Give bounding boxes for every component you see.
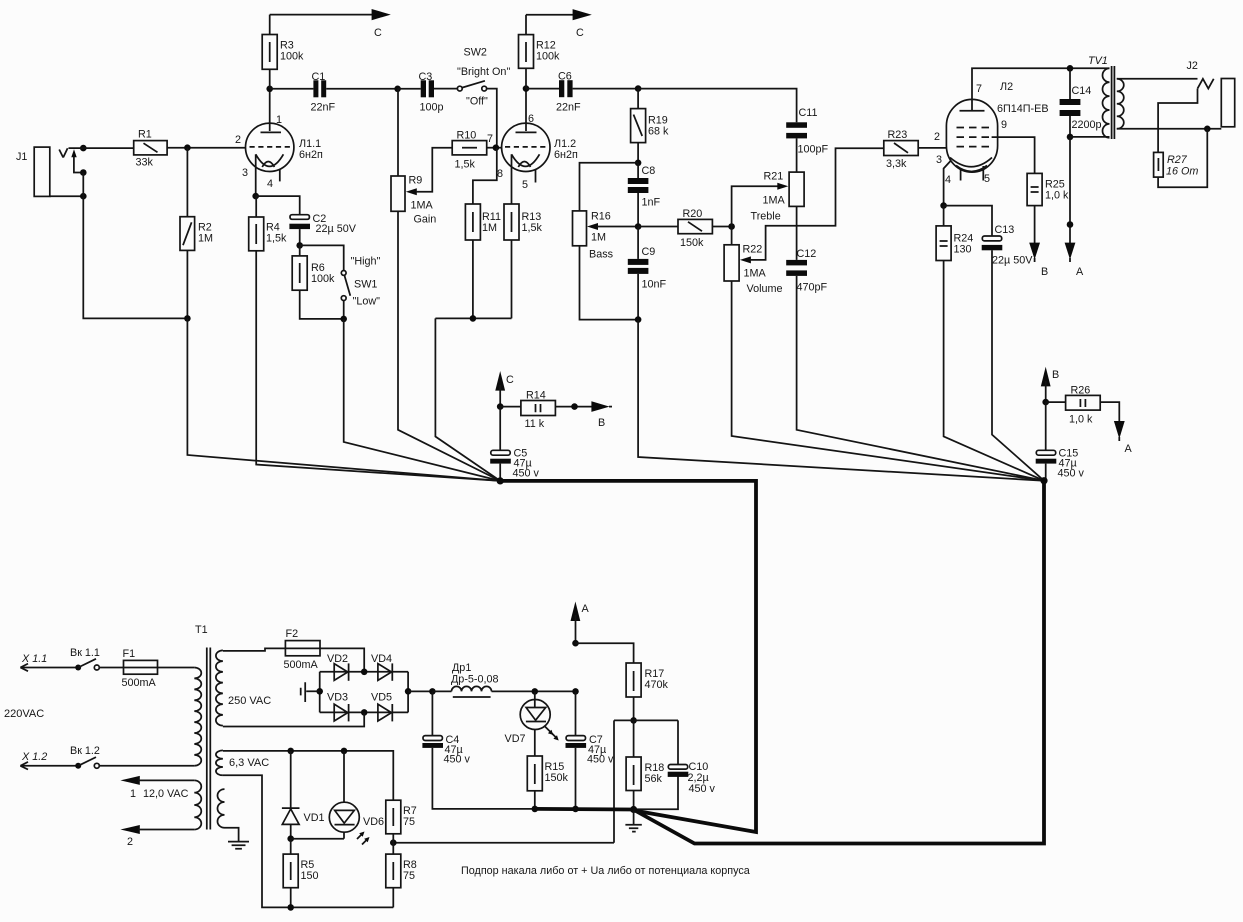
- svg-text:R1: R1: [138, 129, 152, 141]
- wire C14 node down to A: [1069, 137, 1071, 244]
- svg-text:450 v: 450 v: [513, 468, 540, 480]
- svg-text:C6: C6: [558, 71, 572, 83]
- svg-text:F1: F1: [123, 648, 136, 660]
- supply arrow B (down): [1029, 243, 1040, 260]
- wire 6.3VAC return: [223, 775, 393, 907]
- svg-text:R10: R10: [457, 130, 477, 142]
- supply arrow B (right): [591, 401, 609, 412]
- node R2 bottom: [184, 315, 191, 322]
- svg-text:220VAC: 220VAC: [4, 708, 44, 720]
- terminal arrow 1 (12V): [120, 776, 139, 785]
- capacitor C4: [422, 691, 534, 809]
- ground symbol T1: [228, 842, 249, 849]
- svg-text:Вк 1.1: Вк 1.1: [70, 647, 100, 659]
- node grid1: [184, 144, 191, 151]
- wire cathode1 down: [255, 154, 257, 196]
- svg-text:Др1: Др1: [452, 662, 471, 674]
- svg-text:6П14П-ЕВ: 6П14П-ЕВ: [997, 103, 1049, 115]
- thick ground bus right: [635, 481, 1044, 844]
- node ground right: [1040, 477, 1047, 484]
- svg-text:A: A: [582, 603, 590, 615]
- svg-text:8: 8: [497, 168, 503, 180]
- svg-text:100p: 100p: [420, 102, 444, 114]
- svg-text:B: B: [598, 417, 605, 429]
- thick bus PSU: [535, 807, 634, 811]
- wire shield to ground: [225, 828, 239, 842]
- capacitor C12: [786, 248, 827, 294]
- svg-text:1,0 k: 1,0 k: [1045, 190, 1069, 202]
- resistor R27: [1154, 152, 1199, 177]
- svg-text:56k: 56k: [645, 773, 663, 785]
- svg-text:1: 1: [130, 788, 136, 800]
- wire node to R21 wiper: [732, 186, 781, 226]
- wire A rail to R17: [576, 643, 634, 663]
- resistor R23: [884, 129, 918, 170]
- resistor R5: [283, 839, 318, 888]
- wire R4 bottom diag to ground: [256, 251, 500, 481]
- input jack J1: [16, 147, 50, 196]
- svg-text:C11: C11: [799, 107, 818, 119]
- capacitor C14: [1060, 68, 1102, 137]
- wire R8 bottom: [392, 888, 394, 908]
- supply arrow C (left): [372, 9, 391, 20]
- svg-text:Л2: Л2: [1000, 81, 1013, 93]
- node R14 out: [571, 403, 578, 410]
- pin 4 stub: [279, 169, 281, 181]
- wire J1 sleeve to node: [50, 195, 84, 197]
- capacitor C3: [398, 71, 458, 114]
- pin 5 stub: [535, 169, 537, 182]
- wire J2 tip to R27: [1158, 89, 1197, 153]
- svg-text:3: 3: [936, 154, 942, 166]
- svg-text:150k: 150k: [680, 237, 704, 249]
- svg-text:1: 1: [276, 114, 282, 126]
- screen grid wire to R25: [992, 137, 1035, 173]
- svg-text:C14: C14: [1072, 85, 1092, 97]
- svg-text:470pF: 470pF: [797, 282, 828, 294]
- switch Вк 1.2: [70, 745, 194, 769]
- wire R25 to B arrow: [1034, 206, 1036, 244]
- node J1 mid: [80, 169, 87, 176]
- J1 tip contact V mark: [59, 148, 67, 157]
- svg-text:22nF: 22nF: [311, 102, 336, 114]
- svg-text:R21: R21: [764, 171, 784, 183]
- svg-text:2: 2: [235, 134, 241, 146]
- resistor R12: [519, 15, 561, 89]
- wire C13 ground diag: [992, 250, 1044, 480]
- svg-text:1MA: 1MA: [411, 200, 434, 212]
- R16 wiper arrow: [587, 223, 598, 230]
- potentiometer R9: [391, 175, 436, 226]
- wire heater bias: [393, 842, 614, 844]
- svg-text:100k: 100k: [280, 51, 304, 63]
- svg-text:16 Om: 16 Om: [1166, 166, 1198, 178]
- wire R18 bottom: [633, 791, 635, 810]
- svg-text:150: 150: [301, 870, 319, 882]
- svg-text:4: 4: [945, 174, 951, 186]
- svg-text:R14: R14: [526, 390, 546, 402]
- wire C14 bottom to TV1: [1070, 136, 1110, 138]
- svg-text:1M: 1M: [591, 232, 606, 244]
- potentiometer R22: [724, 244, 782, 296]
- svg-text:VD5: VD5: [371, 692, 392, 704]
- node A junction: [1067, 221, 1074, 228]
- T1 6.3VAC winding: [216, 750, 223, 775]
- wire input to R1: [69, 147, 134, 149]
- svg-text:"Off": "Off": [466, 96, 488, 108]
- node R7/R8: [390, 839, 397, 846]
- svg-text:10nF: 10nF: [642, 279, 667, 291]
- wire node to R2: [186, 148, 188, 217]
- svg-text:100k: 100k: [536, 51, 560, 63]
- capacitor C7: [566, 691, 615, 809]
- svg-text:1,5k: 1,5k: [455, 159, 476, 171]
- wire R15 bottom: [534, 791, 536, 809]
- svg-text:B: B: [1052, 369, 1059, 381]
- wire R5 bottom: [290, 888, 292, 908]
- svg-text:22µ 50V: 22µ 50V: [316, 223, 357, 235]
- bridge rails: [320, 672, 408, 713]
- wire C-rail 1: [270, 14, 373, 16]
- svg-text:450 v: 450 v: [689, 783, 716, 795]
- capacitor C9: [628, 227, 667, 320]
- wire anode1 up: [269, 89, 271, 131]
- wire R23 to grid Л2: [918, 147, 946, 149]
- node divider: [630, 717, 637, 724]
- transformer TV1 core: [1112, 66, 1115, 139]
- wire ground diag from R2: [187, 318, 500, 481]
- terminal X1.2: [20, 751, 76, 770]
- node R11 bottom: [470, 315, 477, 322]
- pentode U Л2: [946, 81, 1048, 172]
- node VD1 bottom: [287, 835, 294, 842]
- fuse F1: [122, 648, 158, 689]
- resistor R26: [1046, 385, 1101, 426]
- svg-text:7: 7: [976, 83, 982, 95]
- svg-text:470k: 470k: [645, 679, 669, 691]
- svg-text:Подпор накала либо от + Ua либ: Подпор накала либо от + Ua либо от потен…: [461, 865, 750, 877]
- supply arrow A (mid up): [571, 602, 590, 644]
- svg-text:Вк 1.2: Вк 1.2: [70, 745, 100, 757]
- node R20/R21/R22: [728, 223, 735, 230]
- T1 250VAC winding: [216, 650, 223, 725]
- node A feed: [572, 640, 579, 647]
- R9 wiper arrow: [406, 188, 417, 195]
- wire bridge bottom to 250VAC: [223, 712, 364, 726]
- svg-text:Gain: Gain: [414, 214, 437, 226]
- node C2/R6: [296, 242, 303, 249]
- resistor R20: [638, 208, 732, 249]
- J2 tip spring contact: [1198, 79, 1214, 89]
- svg-text:C: C: [374, 27, 382, 39]
- svg-text:C1: C1: [312, 71, 326, 83]
- resistor R2: [180, 217, 213, 251]
- node bridge ac bottom: [361, 709, 368, 716]
- svg-text:R22: R22: [743, 244, 763, 256]
- wire wiper to tone mid node: [597, 226, 638, 228]
- resistor R4: [249, 196, 287, 251]
- node cathode1: [252, 193, 259, 200]
- node VD1 top: [287, 748, 294, 755]
- svg-text:1nF: 1nF: [642, 197, 661, 209]
- wire C-rail 2: [526, 14, 574, 16]
- wire J1 ground run: [83, 196, 187, 318]
- node R26: [1042, 399, 1049, 406]
- svg-text:250 VAC: 250 VAC: [228, 695, 271, 707]
- triode U Л1.1: [246, 123, 323, 171]
- node C5/R14: [497, 403, 504, 410]
- svg-text:3,3k: 3,3k: [886, 158, 907, 170]
- chassis symbol bridge: [301, 682, 320, 702]
- wire R24 ground diag: [944, 261, 1044, 481]
- capacitor C5: [490, 407, 539, 481]
- svg-text:A: A: [1125, 443, 1133, 455]
- resistor R3: [262, 15, 304, 89]
- wire F1 to T1 primary: [158, 667, 195, 669]
- svg-text:C8: C8: [642, 165, 656, 177]
- node ground left: [497, 477, 504, 484]
- svg-text:9: 9: [1001, 119, 1007, 131]
- node C14 bottom: [1067, 134, 1074, 141]
- svg-text:2: 2: [127, 836, 133, 848]
- T1 shield winding: [217, 789, 224, 828]
- svg-text:VD2: VD2: [327, 653, 348, 665]
- R21 wiper arrow: [777, 183, 788, 190]
- wire node to R16 top: [580, 163, 639, 211]
- transformer TV1 primary: [1088, 55, 1110, 138]
- svg-text:75: 75: [403, 870, 415, 882]
- resistor R6: [292, 245, 335, 290]
- T1 primary winding: [194, 668, 201, 766]
- svg-text:C3: C3: [419, 71, 433, 83]
- svg-text:X 1.1: X 1.1: [21, 653, 47, 665]
- resistor R7: [386, 800, 417, 834]
- wire cathode Л2: [944, 161, 951, 206]
- wire R22 bottom ground diag: [732, 281, 1044, 481]
- node C7 top rail: [572, 688, 579, 695]
- node J2 sleeve: [1204, 126, 1211, 133]
- wire R27 bottom loop: [1158, 129, 1207, 188]
- svg-text:"Bright On": "Bright On": [457, 66, 510, 78]
- wire SW1 ground diag: [344, 319, 501, 481]
- svg-text:75: 75: [403, 816, 415, 828]
- resistor R8: [386, 854, 417, 888]
- wire cathode1 to C2: [256, 196, 300, 215]
- svg-text:100pF: 100pF: [798, 144, 829, 156]
- diode VD5: [371, 692, 392, 722]
- wire R26 to A arrow: [1100, 402, 1119, 422]
- wire grid2 jog to R11: [473, 148, 497, 204]
- resistor R14: [500, 390, 555, 431]
- node R5 bottom: [287, 904, 294, 911]
- svg-text:6н2п: 6н2п: [554, 149, 578, 161]
- svg-text:R16: R16: [591, 211, 611, 223]
- svg-text:1MA: 1MA: [763, 195, 786, 207]
- svg-text:B: B: [1041, 266, 1048, 278]
- resistor R18: [626, 720, 664, 790]
- svg-text:1,5k: 1,5k: [522, 222, 543, 234]
- svg-text:150k: 150k: [545, 772, 569, 784]
- node tone top: [635, 160, 642, 167]
- resistor R10: [452, 130, 487, 171]
- wire R9 wiper to R10: [416, 148, 452, 192]
- node VD7 top: [532, 688, 539, 695]
- fuse F2: [284, 628, 321, 671]
- wire R17 bottom: [633, 697, 635, 720]
- capacitor C10: [668, 761, 716, 795]
- wire VD1/VD6 bottoms: [291, 838, 344, 840]
- resistor R19: [631, 89, 669, 143]
- wire divider box: [614, 720, 678, 842]
- diode VD2: [327, 653, 349, 681]
- wire R10 to grid2: [487, 147, 502, 149]
- wire bridge out to choke: [408, 690, 432, 692]
- wire R7 bottom: [392, 834, 394, 854]
- svg-text:4: 4: [267, 178, 273, 190]
- node PSU ground: [630, 806, 637, 813]
- node C14 top: [1067, 65, 1074, 72]
- wire R2 bottom: [186, 250, 188, 318]
- node bridge left: [316, 688, 323, 695]
- svg-text:C12: C12: [797, 248, 817, 260]
- svg-text:500mA: 500mA: [122, 677, 157, 689]
- triode U Л1.2: [502, 123, 578, 171]
- svg-text:VD6: VD6: [363, 816, 384, 828]
- svg-text:130: 130: [954, 244, 972, 256]
- wire anode2 up: [525, 89, 527, 131]
- terminal arrow 2 (12V): [120, 825, 139, 834]
- wire R9 feed down: [397, 89, 399, 176]
- wire R9 bottom diag to ground: [398, 211, 500, 481]
- svg-text:T1: T1: [195, 624, 208, 636]
- supply arrow B (right rail up): [1041, 367, 1059, 402]
- wire node to C13: [944, 206, 992, 236]
- svg-text:J1: J1: [16, 151, 27, 163]
- node grid2: [493, 144, 500, 151]
- svg-text:33k: 33k: [136, 157, 154, 169]
- J1 tip contact arrow: [71, 149, 76, 157]
- svg-text:SW2: SW2: [464, 47, 487, 59]
- node anode1: [266, 86, 273, 93]
- switch SW2: [457, 47, 510, 108]
- wire 6.3VAC top rail: [223, 751, 393, 800]
- wire node to R22 top: [731, 227, 733, 245]
- svg-text:450 v: 450 v: [444, 754, 471, 766]
- wire cathode2 down to R13: [511, 154, 513, 204]
- pin 4 stub: [960, 170, 962, 181]
- resistor R17: [626, 663, 668, 697]
- wire anode Л2 to TV1: [972, 68, 1110, 110]
- svg-text:A: A: [1076, 266, 1084, 278]
- svg-text:1M: 1M: [198, 233, 213, 245]
- wire C2 bottom to node: [299, 229, 301, 245]
- svg-text:22nF: 22nF: [556, 102, 581, 114]
- svg-text:7: 7: [487, 133, 493, 145]
- wire C12 bottom ground diag: [797, 276, 1044, 481]
- R22 wiper arrow: [740, 256, 751, 263]
- svg-text:6: 6: [528, 113, 534, 125]
- node tone mid: [635, 223, 642, 230]
- svg-text:22µ 50V: 22µ 50V: [992, 255, 1033, 267]
- svg-text:1MA: 1MA: [744, 268, 767, 280]
- resistor R13: [504, 204, 543, 240]
- T1 12V winding: [194, 780, 201, 829]
- svg-text:VD3: VD3: [327, 692, 348, 704]
- svg-text:12,0 VAC: 12,0 VAC: [143, 788, 189, 800]
- diode VD4: [371, 653, 392, 681]
- wire R19 bottom: [637, 143, 639, 163]
- svg-text:1,0 k: 1,0 k: [1069, 414, 1093, 426]
- terminal X1.1: [20, 653, 76, 671]
- resistor R25: [1027, 173, 1069, 205]
- svg-text:6н2п: 6н2п: [299, 149, 323, 161]
- node SW1 bottom: [340, 316, 347, 323]
- wire R16 bottom: [580, 246, 639, 320]
- supply arrow A (down): [1065, 243, 1076, 260]
- node C1/R9: [394, 86, 401, 93]
- node J1 top: [80, 145, 87, 152]
- svg-text:"High": "High": [351, 256, 381, 268]
- svg-text:R26: R26: [1071, 385, 1091, 397]
- resistor R11: [465, 204, 501, 240]
- wire tone bottom ground diag: [638, 320, 1044, 481]
- capacitor C1: [270, 71, 398, 114]
- svg-text:450 v: 450 v: [1058, 468, 1085, 480]
- svg-text:VD1: VD1: [304, 812, 325, 824]
- svg-text:2: 2: [934, 131, 940, 143]
- potentiometer R21: [751, 171, 805, 223]
- capacitor C11: [786, 107, 828, 172]
- resistor R1: [134, 129, 167, 169]
- svg-text:Bass: Bass: [589, 249, 614, 261]
- svg-text:C13: C13: [995, 224, 1015, 236]
- svg-text:R20: R20: [683, 208, 703, 220]
- svg-text:2200p: 2200p: [1072, 119, 1102, 131]
- wire R14 to B arrow: [555, 406, 592, 408]
- svg-text:1M: 1M: [482, 222, 497, 234]
- svg-text:1,5k: 1,5k: [266, 233, 287, 245]
- svg-text:68 k: 68 k: [648, 126, 669, 138]
- node C7 ground: [572, 806, 579, 813]
- node VD6 top: [341, 748, 348, 755]
- wire R22 wiper to R23: [750, 148, 884, 260]
- ground symbol PSU: [625, 810, 641, 832]
- wire secondary bottom to J2 sleeve: [1117, 128, 1222, 130]
- pin 5 stub: [982, 166, 984, 181]
- svg-text:C9: C9: [642, 246, 656, 258]
- svg-text:J2: J2: [1187, 60, 1198, 72]
- node anode2: [523, 85, 530, 92]
- wire 250VAC top to F2: [223, 648, 286, 651]
- node tone bottom: [635, 316, 642, 323]
- supply arrow A (down small): [1114, 421, 1125, 439]
- capacitor C2: [289, 213, 356, 235]
- choke Др1: [432, 662, 575, 697]
- wire C6 node to C11: [638, 89, 797, 123]
- svg-text:Treble: Treble: [751, 211, 781, 223]
- svg-text:500mA: 500mA: [284, 659, 319, 671]
- svg-text:"Low": "Low": [353, 296, 381, 308]
- supply arrow C vert: [495, 371, 514, 407]
- wire R11/R13 bottoms: [435, 240, 511, 318]
- svg-text:R23: R23: [888, 129, 908, 141]
- resistor R15: [527, 756, 568, 791]
- node bridge right: [405, 688, 412, 695]
- wire R6 bottom: [300, 290, 344, 319]
- svg-text:C: C: [576, 27, 584, 39]
- svg-text:Др-5-0,08: Др-5-0,08: [451, 674, 499, 686]
- T1 core: [207, 648, 211, 830]
